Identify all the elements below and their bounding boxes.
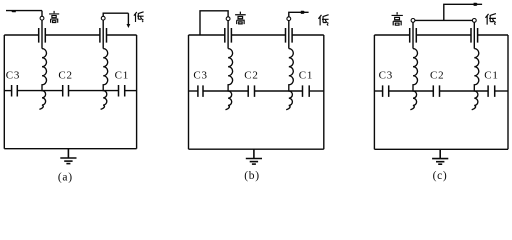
inductor L2 tapped coil (c) xyxy=(472,49,479,110)
wire tap line left segment (a) xyxy=(4,90,11,92)
capacitor C2 plates (a) xyxy=(63,85,69,97)
ground stem (a) xyxy=(67,149,69,158)
wire box left edge (c) xyxy=(373,35,375,149)
svg-text:C3: C3 xyxy=(193,69,207,81)
ground bar 1 (a) xyxy=(60,157,76,159)
capacitor C3 plates (c) xyxy=(383,85,389,97)
label Lo (c) xyxy=(485,14,495,25)
wire box left edge (a) xyxy=(3,35,5,149)
terminal Lo node circle (c) xyxy=(472,19,476,23)
inductor L2 tapped coil (b) xyxy=(286,49,293,110)
capacitor plates at coil L1 top (b) xyxy=(225,28,232,43)
wire box top edge left segment (a) xyxy=(4,34,38,36)
wire tap line C2-to-C1 segment through L2 tap (c) xyxy=(440,90,489,92)
wire tap line right segment (a) xyxy=(125,90,137,92)
wire box right edge (c) xyxy=(507,35,509,149)
wire Lo terminal down through cap gap to coil L2 (b) xyxy=(288,21,290,49)
svg-text:(b): (b) xyxy=(244,170,260,182)
wire box bottom edge (a) xyxy=(4,148,136,150)
wire tap line C3-to-C2 segment through L1 tap (a) xyxy=(17,90,62,92)
svg-text:C1: C1 xyxy=(484,69,498,81)
ground bar 3 (b) xyxy=(252,163,256,165)
ground bar 1 (c) xyxy=(432,158,448,160)
terminal Hi node circle (b) xyxy=(226,17,230,21)
wire tap line C2-to-C1 segment through L2 tap (b) xyxy=(255,90,303,92)
wire tap line left segment (b) xyxy=(189,90,198,92)
capacitor C2 plates (c) xyxy=(433,85,439,97)
wire tap line C3-to-C2 segment through L1 tap (c) xyxy=(389,90,434,92)
svg-text:C2: C2 xyxy=(58,69,72,81)
ground stem (b) xyxy=(253,149,255,158)
wire box top edge left segment (b) xyxy=(189,34,225,36)
capacitor C1 plates (a) xyxy=(119,85,125,97)
wire Hi terminal down through cap gap to coil L1 (c) xyxy=(412,22,414,48)
label Hi (b) xyxy=(235,12,246,24)
ground bar 2 (c) xyxy=(436,161,444,163)
ground bar 3 (c) xyxy=(438,163,442,165)
label Lo (a) xyxy=(134,12,144,22)
wire top-left input stub of circuit (a) xyxy=(6,10,42,12)
capacitor C2 plates (b) xyxy=(248,85,254,97)
wire box top edge middle segment (c) xyxy=(416,34,471,36)
wire box top edge middle segment (a) xyxy=(45,34,100,36)
svg-text:C3: C3 xyxy=(379,69,393,81)
wire box right edge (b) xyxy=(323,35,325,149)
terminal Hi node circle (a) xyxy=(40,16,44,20)
label Lo (b) xyxy=(318,15,328,26)
label Hi (c) xyxy=(392,12,403,25)
capacitor C3 plates (a) xyxy=(12,85,18,97)
ground stem (c) xyxy=(439,149,441,158)
wire Lo terminal lead (b) xyxy=(289,12,309,16)
capacitor C1 plates (b) xyxy=(303,85,310,97)
svg-text:C1: C1 xyxy=(299,69,313,81)
capacitor plates at coil L2 top (b) xyxy=(286,28,293,43)
capacitor C1 plates (c) xyxy=(488,85,495,97)
wire box top edge right segment (b) xyxy=(292,34,324,36)
wire Hi terminal loop to box top (b) xyxy=(200,11,228,35)
wire tap line right segment (b) xyxy=(309,90,324,92)
svg-text:(a): (a) xyxy=(58,171,73,183)
wire tap line right segment (c) xyxy=(495,90,508,92)
wire box top edge middle segment (b) xyxy=(231,34,285,36)
terminal Lo node circle (b) xyxy=(287,17,291,21)
inductor L2 tapped coil (a) xyxy=(101,49,108,110)
wire tap riser to output lead (c) xyxy=(444,4,482,20)
wire tap line left segment (c) xyxy=(374,90,382,92)
svg-text:C1: C1 xyxy=(115,69,129,81)
wire Hi terminal down through cap gap to coil L1 (a) xyxy=(41,20,43,48)
svg-text:C3: C3 xyxy=(6,69,20,81)
arrowhead right on output lead (c) xyxy=(474,3,479,6)
wire tap line C3-to-C2 segment through L1 tap (b) xyxy=(203,90,248,92)
wire from stub down to Hi terminal (a) xyxy=(41,11,43,17)
arrowhead right on Lo lead (b) xyxy=(301,11,306,14)
label Hi (a) xyxy=(49,11,59,23)
wire box bottom edge (b) xyxy=(189,148,324,150)
arrowhead down at Lo lead (a) xyxy=(127,24,131,28)
inductor L1 tapped coil (c) xyxy=(410,49,417,110)
inductor L1 tapped coil (b) xyxy=(226,49,233,110)
svg-text:C2: C2 xyxy=(430,69,444,81)
wire Hi terminal down through cap gap to coil L1 (b) xyxy=(227,21,229,49)
ground bar 1 (b) xyxy=(246,158,262,160)
wire box top edge left segment (c) xyxy=(374,34,409,36)
wire box right edge (a) xyxy=(136,35,138,149)
ground bar 2 (a) xyxy=(64,160,72,162)
wire box left edge (b) xyxy=(188,35,190,149)
wire Lo terminal down through cap gap to coil L2 (c) xyxy=(473,22,475,48)
wire Lo terminal riser (a) xyxy=(103,13,128,16)
ground bar 2 (b) xyxy=(250,161,258,163)
arrowhead on input stub (a) xyxy=(11,10,16,12)
wire tap line C2-to-C1 segment through L2 tap (a) xyxy=(69,90,119,92)
svg-text:(c): (c) xyxy=(433,170,448,182)
terminal Hi node circle (c) xyxy=(411,19,415,23)
capacitor plates at coil L2 top (a) xyxy=(100,28,107,43)
wire box top edge right segment (a) xyxy=(107,34,137,36)
wire box bottom edge (c) xyxy=(374,148,508,150)
capacitor plates at coil L1 top (a) xyxy=(39,28,46,43)
capacitor C3 plates (b) xyxy=(198,85,203,97)
wire linking Hi and Lo terminals (c) xyxy=(413,19,474,21)
capacitor plates at coil L2 top (c) xyxy=(471,28,478,43)
wire box top edge right segment (c) xyxy=(478,34,508,36)
wire Lo drop with arrow (a) xyxy=(127,13,129,24)
terminal Lo node circle (a) xyxy=(101,16,105,20)
capacitor plates at coil L1 top (c) xyxy=(410,28,417,43)
ground bar 3 (a) xyxy=(66,163,70,165)
inductor L1 tapped coil (a) xyxy=(39,49,46,110)
svg-text:C2: C2 xyxy=(244,69,258,81)
wire Lo terminal down through cap gap to coil L2 (a) xyxy=(102,20,104,48)
